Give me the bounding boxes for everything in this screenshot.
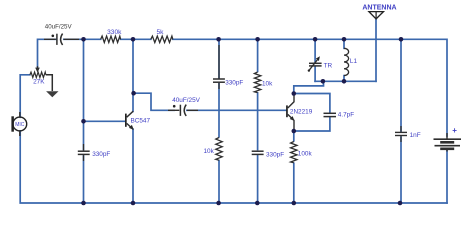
svg-text:100k: 100k — [298, 151, 313, 158]
svg-text:40uF/25V: 40uF/25V — [172, 97, 200, 104]
svg-text:BC547: BC547 — [131, 118, 151, 125]
svg-text:L1: L1 — [350, 58, 358, 65]
svg-text:+: + — [452, 126, 457, 135]
svg-text:330k: 330k — [107, 29, 122, 36]
svg-text:330pF: 330pF — [225, 79, 243, 86]
svg-text:330pF: 330pF — [266, 152, 284, 159]
svg-text:40uF/25V: 40uF/25V — [45, 24, 73, 31]
svg-text:2N2219: 2N2219 — [290, 109, 313, 116]
svg-text:10k: 10k — [262, 81, 273, 88]
svg-text:TR: TR — [324, 63, 333, 70]
svg-text:27K: 27K — [33, 79, 45, 86]
svg-text:5k: 5k — [157, 29, 165, 36]
svg-text:MIC: MIC — [15, 122, 25, 128]
svg-text:1nF: 1nF — [410, 132, 421, 139]
svg-text:ANTENNA: ANTENNA — [362, 4, 396, 11]
svg-text:330pF: 330pF — [92, 151, 110, 158]
svg-text:4.7pF: 4.7pF — [338, 112, 354, 119]
svg-text:10k: 10k — [204, 148, 215, 155]
